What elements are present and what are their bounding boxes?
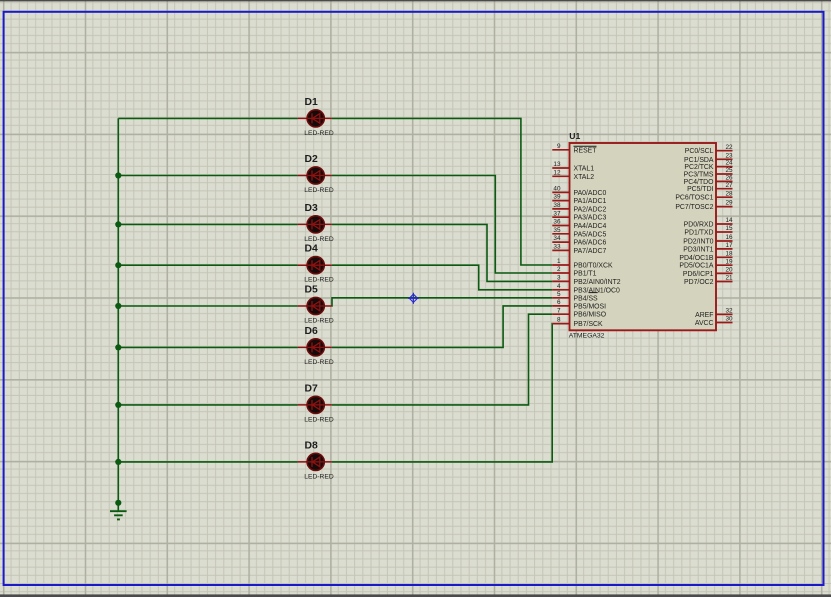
svg-text:39: 39 (553, 194, 561, 201)
svg-text:14: 14 (726, 217, 734, 224)
svg-text:34: 34 (553, 235, 561, 242)
svg-text:PA1/ADC1: PA1/ADC1 (574, 198, 607, 205)
svg-text:2: 2 (557, 266, 561, 273)
svg-text:12: 12 (553, 169, 561, 176)
svg-text:PD4/OC1B: PD4/OC1B (679, 255, 713, 262)
svg-text:PA7/ADC7: PA7/ADC7 (574, 248, 607, 255)
svg-text:PC5/TDI: PC5/TDI (687, 186, 714, 193)
svg-text:PA5/ADC5: PA5/ADC5 (574, 231, 607, 238)
svg-text:29: 29 (726, 200, 734, 207)
svg-text:PD5/OC1A: PD5/OC1A (679, 263, 713, 270)
svg-text:PD6/ICP1: PD6/ICP1 (683, 271, 714, 278)
svg-text:1: 1 (557, 258, 561, 265)
svg-text:17: 17 (726, 242, 734, 249)
svg-text:13: 13 (553, 161, 561, 168)
svg-text:8: 8 (557, 317, 561, 324)
svg-text:XTAL1: XTAL1 (574, 166, 595, 173)
svg-text:XTAL2: XTAL2 (574, 174, 595, 181)
svg-text:27: 27 (726, 182, 734, 189)
svg-text:33: 33 (553, 244, 561, 251)
svg-text:PD2/INT0: PD2/INT0 (683, 239, 713, 246)
svg-text:PC0/SCL: PC0/SCL (685, 148, 714, 155)
svg-text:PD0/RXD: PD0/RXD (684, 222, 714, 229)
svg-text:PA3/ADC3: PA3/ADC3 (574, 215, 607, 222)
svg-text:PC2/TCK: PC2/TCK (684, 164, 714, 171)
svg-text:PA4/ADC4: PA4/ADC4 (574, 223, 607, 230)
svg-text:LED-RED: LED-RED (304, 187, 334, 194)
svg-text:37: 37 (553, 210, 561, 217)
svg-text:D8: D8 (305, 440, 319, 451)
svg-text:D3: D3 (305, 203, 319, 214)
svg-text:PB7/SCK: PB7/SCK (574, 321, 604, 328)
svg-text:25: 25 (726, 167, 734, 174)
svg-text:PB5/MOSI: PB5/MOSI (574, 303, 607, 310)
svg-text:20: 20 (726, 267, 734, 274)
svg-text:9: 9 (557, 143, 561, 150)
svg-text:28: 28 (726, 190, 734, 197)
svg-text:23: 23 (726, 152, 734, 159)
svg-text:22: 22 (726, 144, 734, 151)
svg-text:PB1/T1: PB1/T1 (574, 271, 597, 278)
svg-text:D7: D7 (305, 383, 319, 394)
svg-text:35: 35 (553, 227, 561, 234)
svg-text:PB6/MISO: PB6/MISO (574, 312, 607, 319)
svg-text:AREF: AREF (695, 312, 713, 319)
svg-text:PC4/TDO: PC4/TDO (684, 179, 715, 186)
svg-text:6: 6 (557, 299, 561, 306)
svg-text:PD3/INT1: PD3/INT1 (683, 246, 713, 253)
svg-text:18: 18 (726, 250, 734, 257)
svg-text:PB3/AIN1/OC0: PB3/AIN1/OC0 (574, 287, 621, 294)
svg-text:4: 4 (557, 283, 561, 290)
svg-text:D6: D6 (305, 326, 319, 337)
svg-text:PC7/TOSC2: PC7/TOSC2 (675, 204, 713, 211)
svg-text:30: 30 (726, 316, 734, 323)
svg-text:26: 26 (726, 175, 734, 182)
svg-text:PD1/TXD: PD1/TXD (684, 230, 713, 237)
svg-text:24: 24 (726, 160, 734, 167)
svg-text:LED-RED: LED-RED (304, 130, 334, 137)
svg-text:7: 7 (557, 307, 561, 314)
svg-text:15: 15 (726, 225, 734, 232)
svg-text:PB2/AIN0/INT2: PB2/AIN0/INT2 (574, 279, 621, 286)
svg-text:LED-RED: LED-RED (304, 416, 334, 423)
svg-text:LED-RED: LED-RED (304, 277, 334, 284)
svg-text:40: 40 (553, 186, 561, 193)
svg-text:PB0/T0/XCK: PB0/T0/XCK (574, 263, 613, 270)
svg-text:3: 3 (557, 275, 561, 282)
svg-text:LED-RED: LED-RED (304, 473, 334, 480)
svg-text:LED-RED: LED-RED (304, 359, 334, 366)
svg-text:16: 16 (726, 234, 734, 241)
svg-text:32: 32 (726, 308, 734, 315)
svg-text:U1: U1 (569, 131, 580, 141)
svg-text:RESET: RESET (574, 147, 598, 154)
svg-text:D2: D2 (305, 154, 319, 165)
svg-text:38: 38 (553, 202, 561, 209)
svg-text:21: 21 (726, 275, 734, 282)
svg-text:PA0/ADC0: PA0/ADC0 (574, 190, 607, 197)
svg-text:D4: D4 (305, 244, 319, 255)
svg-text:D1: D1 (305, 97, 319, 108)
svg-text:AVCC: AVCC (695, 320, 714, 327)
svg-text:5: 5 (557, 291, 561, 298)
svg-text:36: 36 (553, 219, 561, 226)
svg-text:PB4/SS: PB4/SS (574, 295, 599, 302)
svg-text:PA6/ADC6: PA6/ADC6 (574, 240, 607, 247)
svg-text:LED-RED: LED-RED (304, 318, 334, 325)
svg-text:PC1/SDA: PC1/SDA (684, 157, 714, 164)
svg-text:D5: D5 (305, 284, 319, 295)
svg-text:PA2/ADC2: PA2/ADC2 (574, 206, 607, 213)
svg-text:ATMEGA32: ATMEGA32 (569, 332, 605, 339)
svg-text:LED-RED: LED-RED (304, 236, 334, 243)
svg-text:PC3/TMS: PC3/TMS (684, 172, 714, 179)
svg-text:19: 19 (726, 258, 734, 265)
svg-text:PD7/OC2: PD7/OC2 (684, 279, 714, 286)
svg-text:PC6/TOSC1: PC6/TOSC1 (675, 195, 713, 202)
